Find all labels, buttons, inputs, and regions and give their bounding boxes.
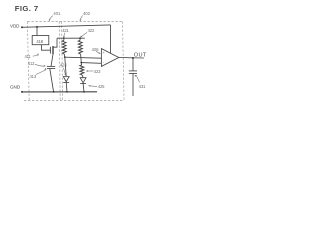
svg-text:421: 421 bbox=[62, 28, 69, 33]
svg-text:401: 401 bbox=[53, 11, 61, 16]
svg-text:423: 423 bbox=[94, 69, 101, 74]
svg-text:431: 431 bbox=[139, 84, 146, 89]
svg-text:VDD: VDD bbox=[10, 23, 20, 28]
svg-text:412: 412 bbox=[28, 61, 35, 66]
svg-text:GND: GND bbox=[10, 84, 21, 89]
svg-text:402: 402 bbox=[83, 11, 91, 16]
svg-text:426: 426 bbox=[92, 47, 100, 52]
svg-text:411: 411 bbox=[25, 54, 32, 59]
svg-text:+: + bbox=[103, 51, 105, 55]
svg-text:FIG. 7: FIG. 7 bbox=[15, 4, 39, 13]
svg-text:413: 413 bbox=[30, 74, 37, 79]
svg-text:425: 425 bbox=[98, 84, 105, 89]
svg-text:OUT: OUT bbox=[134, 53, 147, 59]
svg-text:422: 422 bbox=[88, 28, 95, 33]
svg-text:418: 418 bbox=[36, 39, 43, 44]
svg-text:424: 424 bbox=[60, 63, 67, 68]
